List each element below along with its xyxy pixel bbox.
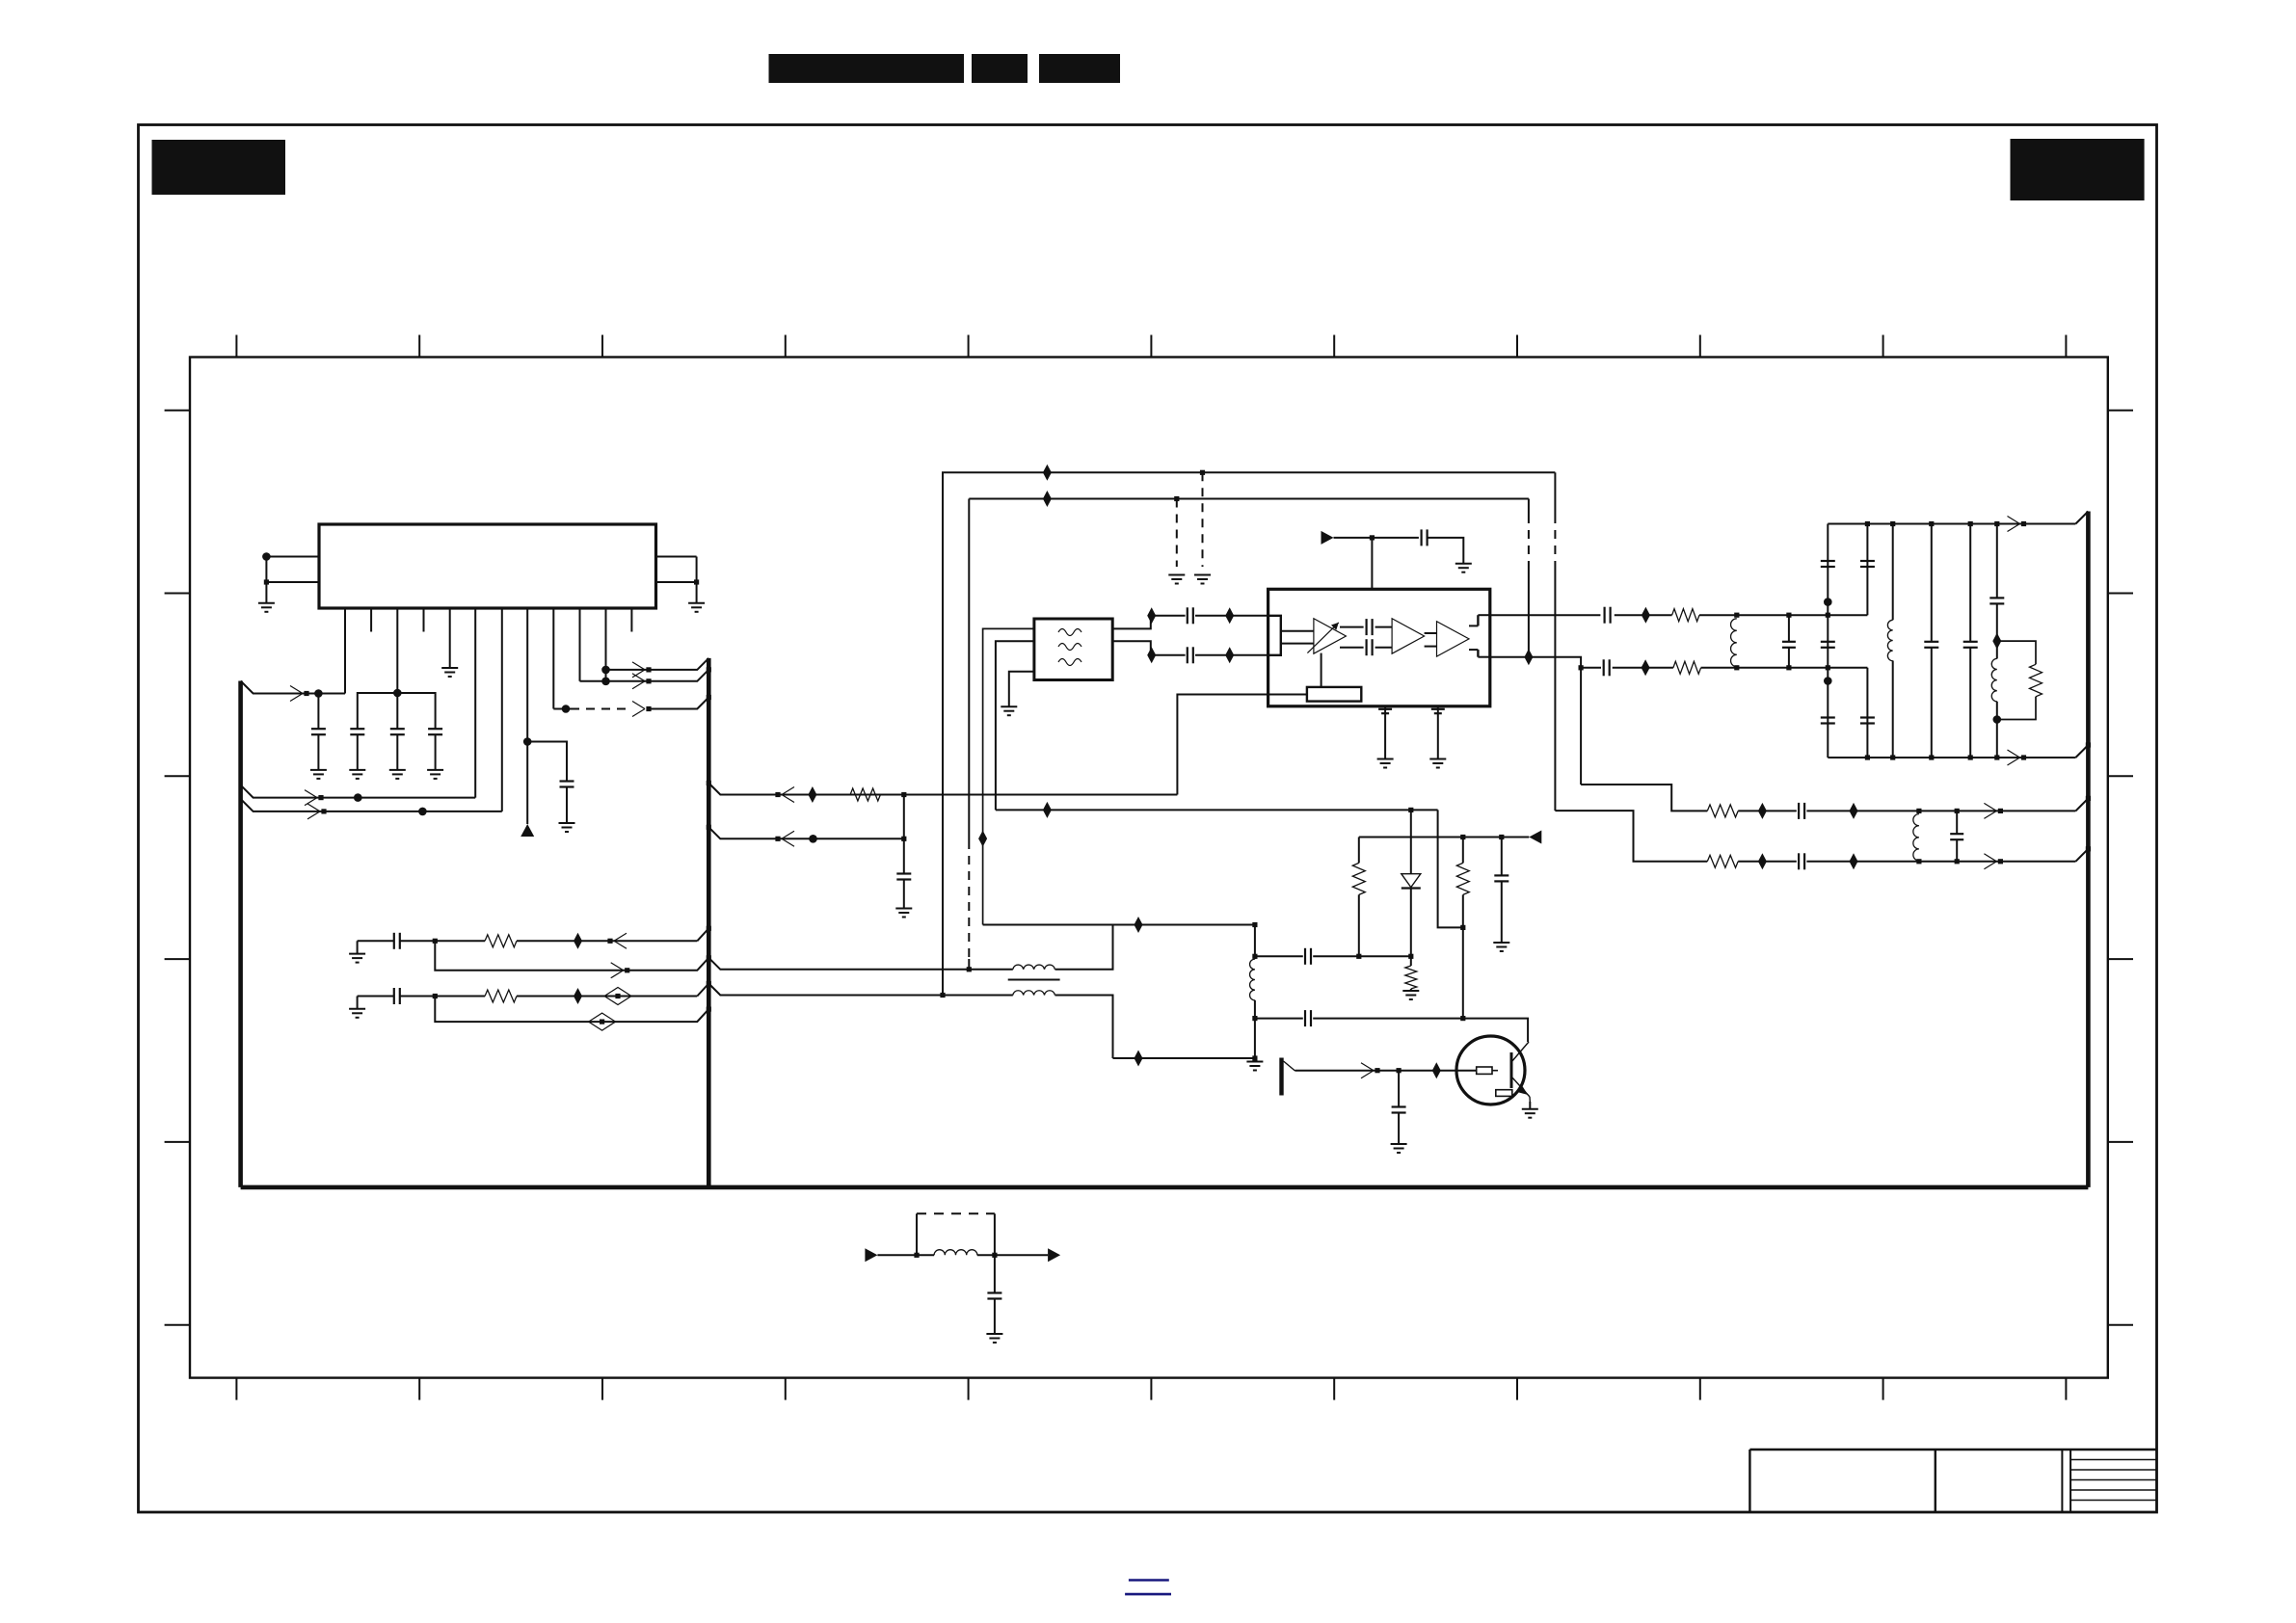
node wireA dashed drop	[1200, 470, 1205, 475]
wire power to U2 top	[1371, 538, 1373, 589]
wire LC in	[877, 1254, 934, 1256]
arrow wire3	[307, 804, 320, 811]
node CE bottom	[1968, 755, 1973, 759]
node bus pin9 attach	[707, 695, 711, 700]
capacitor C29	[1304, 948, 1306, 965]
border inner frame	[190, 358, 2108, 1378]
node CC bottom	[1890, 755, 1895, 759]
wire U1 pin5	[449, 608, 451, 668]
inductor L2	[1887, 620, 1892, 660]
wire A1 out lower	[1340, 647, 1364, 649]
redacted header bar 1	[769, 54, 965, 83]
testpoint R2 a	[1758, 853, 1767, 869]
offpage triangle pin8	[521, 824, 534, 837]
wire B dashed drop	[1176, 499, 1178, 568]
node LC b	[992, 1253, 997, 1258]
capacitor C18	[1821, 641, 1835, 643]
wire bus to pin1	[241, 681, 345, 694]
node SG diode	[1408, 954, 1413, 959]
resistor N1	[485, 935, 517, 947]
wire ind rail lower b	[1055, 996, 1113, 1059]
testpoint CF	[1992, 633, 2001, 650]
node base cap	[1397, 1068, 1402, 1073]
column CE	[1969, 524, 1971, 642]
arrow pin9 wire	[632, 702, 645, 709]
testpoint rowQ out	[1524, 649, 1533, 665]
arrow wire2	[305, 790, 317, 798]
ground C13	[1429, 758, 1446, 760]
wire U1 pin1	[344, 608, 346, 694]
node N1 split	[433, 939, 438, 944]
wire U1 left pin upper	[266, 556, 319, 558]
node CC top	[1890, 521, 1895, 526]
wire N2 to resistor	[435, 996, 485, 998]
testpoint R2 b	[1850, 853, 1858, 869]
node jack col bottom	[1252, 1055, 1257, 1060]
node pin3 junction	[393, 689, 402, 698]
wire rowQ	[1581, 667, 1601, 669]
testpoint jack lower	[1135, 1051, 1143, 1067]
wire U1 left pin lower	[266, 581, 319, 583]
bus right vertical	[2086, 512, 2091, 1187]
bias block U2	[1307, 687, 1361, 702]
arrow bottom rail	[2008, 750, 2020, 758]
wire A1 out upper	[1340, 626, 1364, 628]
arrow R2	[1984, 854, 1996, 862]
wire Rb lower	[1462, 927, 1464, 1018]
connector glyph N2 main	[615, 994, 620, 998]
testpoint jack upper	[1135, 917, 1143, 933]
wire A dashed drop	[1202, 472, 1204, 567]
node wire2	[354, 793, 362, 802]
node R2 x2	[1955, 859, 1960, 864]
node LC a	[914, 1253, 919, 1258]
capacitor C24	[1989, 597, 2004, 599]
testpoint T1 top	[1043, 802, 1052, 818]
testpoint opamp in upper	[1225, 607, 1234, 624]
node CF top	[1994, 521, 1999, 526]
wire ind rail upper	[969, 969, 1013, 971]
node wireD end	[901, 837, 906, 841]
jack switch contact	[1279, 1058, 1283, 1096]
node wire3	[418, 808, 427, 816]
bus bottom horizontal	[241, 1185, 2089, 1190]
wire FL1 in lower	[996, 641, 1034, 810]
node jack mid2	[1252, 1016, 1257, 1021]
wire pin10 to bus	[580, 670, 709, 681]
ground U1 right	[688, 602, 705, 604]
arrow base	[1361, 1063, 1374, 1071]
filter FL1 body	[1034, 619, 1112, 680]
node C1 junction	[314, 689, 323, 698]
IC U1 body	[319, 524, 656, 608]
wire rail2 exit	[708, 958, 969, 970]
inductor L1 between rows	[1731, 619, 1737, 667]
wire A2 to A3 upper	[1425, 632, 1437, 634]
ground C28	[1493, 942, 1509, 944]
capacitor C11	[1420, 529, 1422, 545]
wire pin9 to bus solid a	[553, 708, 571, 710]
wire N1 to resistor	[435, 940, 485, 942]
resistor Rb	[1462, 838, 1464, 864]
testpoint FL1 in	[978, 831, 987, 847]
capacitor C12 below U2	[1384, 706, 1386, 759]
resistor R5	[1673, 661, 1701, 674]
capacitor C23	[1963, 641, 1978, 643]
ground N1 input	[349, 953, 365, 955]
node pin11 junction b	[601, 678, 610, 686]
wire base	[1295, 1070, 1477, 1072]
ground C6	[895, 908, 912, 910]
capacitor C3	[396, 693, 398, 729]
wire R2 b	[1806, 861, 2075, 863]
wire A2 to A3 lower	[1425, 646, 1437, 648]
wire rowQ a	[1613, 667, 1673, 669]
node N2 split	[433, 994, 438, 998]
node power junction	[1370, 535, 1375, 540]
node rowQ start	[1579, 665, 1584, 670]
testpoint rowP	[1642, 607, 1650, 624]
node R1 x2	[1955, 809, 1960, 813]
wire R2	[1738, 861, 1797, 863]
node CB top	[1865, 521, 1870, 526]
node U1 left pin lower junction	[264, 579, 269, 584]
capacitor C6 branch	[903, 795, 905, 874]
op-amp U2 body	[1268, 589, 1490, 706]
footer blue line 1	[1129, 1579, 1169, 1582]
wire U1 pin11	[605, 608, 607, 681]
wire U1 pin8	[526, 608, 528, 824]
wire B upper	[969, 498, 1529, 500]
wire SG	[1255, 955, 1303, 957]
wire bias top	[1359, 837, 1530, 838]
wire FL1 out upper	[1112, 616, 1185, 629]
wire U1 pin2 stub	[370, 608, 372, 632]
capacitor C14	[1603, 607, 1605, 624]
wire N2 return	[435, 997, 708, 1023]
capacitor N1 series	[393, 933, 395, 949]
capacitor C13 below U2	[1437, 706, 1439, 759]
resistor R8	[1707, 855, 1738, 867]
node bias a	[1460, 835, 1465, 839]
column CD	[1931, 524, 1933, 642]
wire U1 pin12 stub	[630, 608, 632, 632]
arrow N1 return	[611, 963, 624, 971]
arrow pin10 wire	[632, 674, 645, 681]
wire T1 top	[996, 809, 1411, 811]
node CB bottom	[1865, 755, 1870, 759]
node jack mid1	[1252, 954, 1257, 959]
redacted header bar 3	[1039, 54, 1120, 83]
node rowQ x1	[1734, 665, 1739, 670]
ground U1 left	[258, 602, 275, 604]
wire U2 input notch	[1268, 616, 1281, 655]
node R1 x1	[1916, 809, 1921, 813]
node wireD	[809, 835, 817, 843]
redacted header bar 2	[972, 54, 1028, 83]
wire FL1 in upper	[983, 628, 1034, 924]
ground FL1	[1001, 705, 1017, 707]
capacitor C22	[1924, 641, 1938, 643]
wire rail3 exit	[708, 984, 1013, 996]
wire U1 pin6	[474, 608, 476, 798]
ground N2 input	[349, 1008, 365, 1010]
arrow R1	[1984, 803, 1996, 811]
wire U1 pin10	[579, 608, 581, 681]
ground C2	[349, 769, 365, 771]
inductor L8	[934, 1250, 977, 1256]
inductor L6	[1013, 991, 1055, 996]
wire R2 link	[1555, 811, 1707, 862]
wire pin8 branch	[527, 742, 567, 782]
wire rowQ from U2	[1490, 657, 1581, 785]
node CF bottom	[1994, 755, 1999, 759]
node bus wireC attach	[707, 781, 711, 785]
capacitor C20	[1860, 560, 1875, 562]
wire B vertical solid	[968, 499, 970, 841]
node U1 right pin lower junction	[694, 579, 699, 584]
node wireB dashed drop	[1174, 496, 1179, 501]
ground wireB drop	[1168, 574, 1185, 576]
footer blue line 2	[1125, 1593, 1171, 1596]
wire C8 to opamp	[1195, 654, 1268, 656]
wire U1 pin4 stub	[423, 608, 425, 632]
power arrow U2	[1322, 531, 1334, 545]
wire bias to A1	[1321, 653, 1322, 687]
wire N2 input	[357, 997, 359, 1009]
wire rowP a	[1615, 614, 1672, 616]
wire pin11 to bus	[606, 658, 709, 670]
transistor Q1 base resistor	[1477, 1067, 1492, 1074]
capacitor C25	[1798, 803, 1800, 819]
wire A	[943, 472, 1555, 995]
node rowP x2	[1786, 613, 1791, 618]
testpoint R1 a	[1758, 803, 1767, 819]
testpoint wireC	[808, 786, 816, 803]
wire R1 link	[1581, 785, 1707, 811]
capacitor N2 series	[393, 988, 395, 1004]
arrow N1 main	[614, 933, 627, 941]
wire T1 corner	[1411, 809, 1438, 811]
node bus N2 attach	[707, 981, 711, 986]
capacitor C30	[1304, 1010, 1306, 1026]
resistor N2	[485, 990, 517, 1002]
capacitor C8	[1187, 647, 1188, 663]
wire U1 left pins to ground	[265, 557, 267, 603]
testpoint base	[1432, 1062, 1441, 1078]
ground C11	[1455, 563, 1472, 565]
ground C4	[427, 769, 443, 771]
inductor L4 between rails	[1913, 814, 1919, 861]
node SC Rb	[1460, 1016, 1465, 1021]
wire LC out	[977, 1254, 1048, 1256]
node U1 pin8 branch	[523, 737, 532, 746]
bus middle vertical	[707, 658, 711, 1187]
capacitor C31	[1398, 1071, 1400, 1107]
connector glyph N2 return	[600, 1020, 604, 1024]
wire bus to pin6	[241, 785, 476, 798]
wire U1 pin9	[552, 608, 554, 709]
wire U1 pin3	[396, 608, 398, 693]
node bias b	[1499, 835, 1504, 839]
testpoint N1	[574, 933, 582, 949]
node rail2 end	[967, 967, 972, 971]
resistor R4	[1672, 609, 1699, 622]
arrow top rail	[2008, 517, 2020, 524]
node bus N1 return attach	[707, 955, 711, 960]
node CE top	[1968, 521, 1973, 526]
column CC	[1892, 524, 1894, 621]
capacitor C26	[1798, 853, 1800, 869]
wire emitter	[1529, 1102, 1531, 1109]
wire U1 right pin lower	[656, 581, 697, 583]
wire top rail	[1828, 523, 2075, 525]
capacitor C21	[1860, 716, 1875, 718]
ground C1	[310, 769, 327, 771]
testpoint R1 b	[1850, 803, 1858, 819]
testpoint N2	[574, 988, 582, 1004]
title block	[1749, 1450, 2156, 1512]
node SG Ra	[1356, 954, 1361, 959]
wire R1 b	[1806, 810, 2075, 811]
power arrow left	[1529, 831, 1541, 844]
resistor R3	[850, 788, 880, 801]
testpoint opamp in lower	[1225, 647, 1234, 663]
node CD top	[1929, 521, 1934, 526]
node rowQ x3	[1826, 665, 1830, 670]
capacitor C27 between rails	[1956, 811, 1958, 834]
wire bus to pin7	[241, 799, 502, 811]
wire pin9 to bus solid b	[650, 698, 708, 709]
grid ticks top	[236, 335, 2066, 358]
ground C3	[389, 769, 406, 771]
capacitor C32	[994, 1255, 996, 1292]
wire ind rail upper b	[1055, 925, 1113, 970]
jack column	[1254, 925, 1256, 960]
grid ticks right	[2108, 411, 2133, 1325]
arrow wire1	[290, 686, 303, 694]
node wireC cap branch	[901, 792, 906, 797]
wire B down to opamp	[1528, 499, 1530, 516]
wire N1 after resistor	[517, 940, 697, 942]
capacitor C19	[1821, 716, 1835, 718]
signal arrow in	[865, 1248, 877, 1262]
redacted label top-right	[2011, 139, 2145, 200]
ferrite dashed bypass	[916, 1213, 918, 1255]
wire C from bus	[708, 784, 1177, 795]
node CF join	[1993, 715, 2002, 724]
node rowQ x2	[1786, 665, 1791, 670]
capacitor C10	[1365, 639, 1367, 655]
wire B vertical lower	[968, 959, 970, 968]
wire U2 output notch	[1469, 625, 1478, 626]
capacitor C16 between rows	[1788, 615, 1790, 642]
inductor L3	[1991, 658, 1997, 701]
capacitor C1	[317, 694, 319, 730]
wire U1 right pins to ground	[696, 557, 698, 603]
wire R1	[1738, 810, 1797, 811]
wire D from bus	[708, 827, 904, 838]
wire B vertical dashed	[968, 840, 970, 959]
node CA dot2	[1824, 677, 1832, 685]
wire rowP b	[1699, 614, 1867, 616]
node diode top	[1408, 808, 1413, 812]
ground C12	[1377, 758, 1394, 760]
node CA dot1	[1824, 598, 1832, 606]
wire C7 to opamp	[1195, 615, 1268, 617]
node bus right attach3	[2086, 846, 2091, 851]
wire A down right	[1554, 472, 1556, 515]
arrow pin11 wire	[632, 662, 645, 670]
column CB lower	[1866, 668, 1868, 758]
testpoint rowQ	[1642, 659, 1650, 676]
wire jack rail upper	[983, 924, 1255, 926]
resistor R7	[1707, 805, 1738, 817]
node U1 left pin upper junction	[262, 552, 271, 561]
wire decoupling row	[358, 693, 436, 729]
resistor Rc	[1410, 956, 1412, 966]
bus left vertical	[238, 681, 243, 1187]
wire SC	[1255, 1018, 1303, 1020]
grid ticks bottom	[236, 1378, 2066, 1400]
wire SC b	[1313, 1019, 1528, 1042]
wire N2 after resistor	[517, 996, 697, 998]
capacitor C2	[350, 728, 364, 730]
transformer core	[1008, 979, 1060, 981]
wire FL1 out lower	[1112, 641, 1185, 655]
column CB upper	[1866, 524, 1868, 616]
ground U1 pin5	[441, 667, 458, 669]
wire C riser to bias	[1177, 695, 1307, 795]
transistor Q1 internals	[1492, 1070, 1498, 1072]
op-amp A3	[1437, 622, 1470, 656]
node Rb mid	[1460, 925, 1465, 930]
node bus right attach1	[2086, 742, 2091, 747]
wire pin9 dashed	[571, 708, 631, 710]
wire jack rail lower	[1113, 1057, 1255, 1059]
wire U1 right pin upper	[656, 556, 697, 558]
capacitor C15	[1603, 659, 1605, 676]
node bus wireD attach	[707, 825, 711, 830]
wire N1 input	[357, 941, 359, 953]
ground Q1 emitter	[1522, 1108, 1538, 1110]
inductor L5	[1013, 965, 1055, 970]
op-amp A1	[1314, 619, 1347, 654]
column CA	[1827, 524, 1829, 758]
wire C10 to A2	[1375, 647, 1393, 649]
node jack col top	[1252, 922, 1257, 927]
node bus right attach2	[2086, 796, 2091, 801]
redacted label top-left	[152, 140, 286, 195]
border outer frame	[139, 125, 2157, 1513]
wire C11 to ground	[1428, 538, 1464, 564]
ground C5	[559, 822, 575, 824]
node bus N2 return attach	[707, 1007, 711, 1012]
ground jack	[1246, 1061, 1263, 1063]
arrow wireD	[782, 831, 794, 838]
resistor R6 parallel	[1997, 641, 2036, 664]
node bus N1 attach	[707, 926, 711, 931]
diode D1	[1410, 810, 1412, 873]
capacitor C7	[1187, 607, 1188, 624]
transistor Q1 body	[1456, 1036, 1525, 1104]
node CD bottom	[1929, 755, 1934, 759]
testpoint FL1 out upper	[1147, 607, 1156, 624]
wire U1 pin7	[501, 608, 503, 811]
wire T1 drop	[1438, 810, 1463, 927]
node bus pin10 attach	[707, 667, 711, 672]
wire bottom rail	[1828, 757, 2075, 758]
